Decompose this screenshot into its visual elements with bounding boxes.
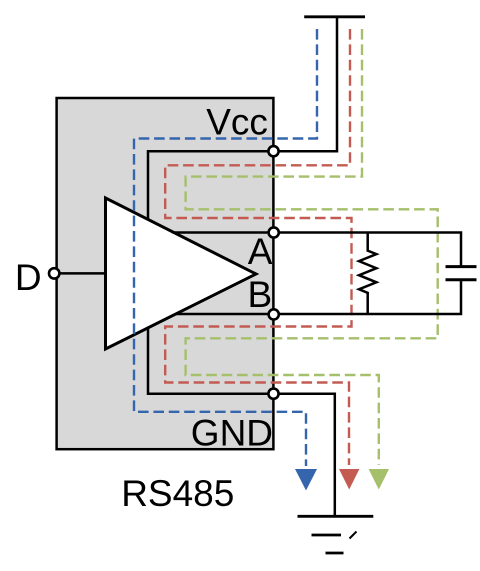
green arrow [369,469,389,490]
svg-text:Vcc: Vcc [206,101,268,142]
node Vcc pin [268,146,278,156]
blue loop supply current path [134,29,317,466]
red loop resistor current path [165,29,351,465]
capacitor CT bottom plate [446,278,477,281]
wire GND to ground [274,394,335,517]
power rail bar [304,15,365,18]
green loop capacitor current path [186,29,438,465]
wire D input [54,272,106,275]
red arrow [339,469,359,490]
svg-text:RS485: RS485 [121,473,234,514]
ground symbol [298,516,374,553]
svg-text:GND: GND [191,413,273,454]
node B pin [269,309,279,319]
resistor RT termination [359,233,376,315]
ground artifact tick [350,532,357,539]
wire A output [173,233,462,267]
wire Vcc to power rail [274,17,338,151]
wire Vcc pin to GND pin internal supply rail [148,151,274,394]
node GND pin [268,389,278,399]
IC body RS485 driver box [57,98,274,449]
op-amp U1 driver triangle [106,198,257,349]
node D input [49,268,59,278]
blue arrow [295,469,317,491]
node A pin [269,227,279,237]
svg-text:D: D [15,257,42,298]
svg-text:B: B [248,274,273,315]
wire B output [176,280,462,314]
svg-text:A: A [248,231,273,272]
capacitor CT top plate [446,265,477,268]
